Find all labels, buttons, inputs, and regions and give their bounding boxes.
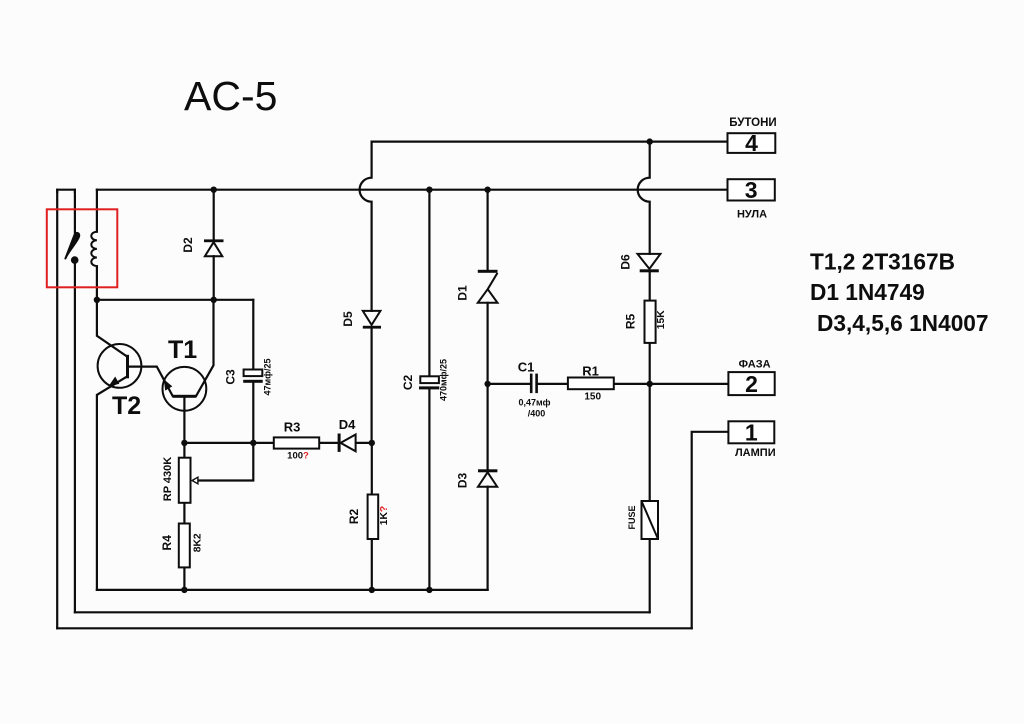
svg-text:0,47мф: 0,47мф [519,398,551,408]
wire R2 lower lead [371,539,373,590]
potentiometer RP [179,458,191,503]
svg-text:AC-5: AC-5 [184,73,277,119]
svg-text:R4: R4 [160,535,174,551]
wire bottom bus y=589.9 [97,589,488,591]
wire T2 collector lead [97,300,127,357]
svg-text:100?: 100? [287,451,309,462]
wire terminal1 lead [692,432,728,629]
wire D6 to R5 [649,272,651,300]
svg-text:ЛАМПИ: ЛАМПИ [735,447,776,459]
diode D3 [478,469,497,486]
wire T2 base to T1 emitter [129,367,173,396]
capacitor C2 [419,376,439,389]
svg-text:R5: R5 [624,314,638,330]
transistor T2 [98,344,142,388]
wire D1 upper lead [487,190,489,270]
diode D4 [338,434,356,452]
wire C2 lower lead [428,389,430,590]
terminal 1 [728,421,774,443]
diode D5 [363,311,381,329]
svg-text:D5: D5 [341,311,355,327]
wire fuse lower lead [649,539,651,612]
terminal 3 [728,179,775,200]
resistor R5 [645,301,656,343]
diode D6 [638,254,661,272]
svg-text:1K?: 1K? [379,506,390,525]
wire RP wiper feed [198,443,254,481]
wire C3 lower lead to R3 row [252,383,254,443]
wire D3 upper lead [487,384,489,469]
RP wiper arrow [192,477,198,484]
diode D2 [204,239,224,256]
wire T1 collector lead [196,300,213,396]
zener D1 [478,270,498,303]
svg-text:D4: D4 [339,417,356,432]
svg-text:470мф/25: 470мф/25 [439,359,449,401]
svg-text:R1: R1 [582,363,599,378]
wire coil upper lead x=96.9 [96,190,98,232]
svg-text:1: 1 [745,420,758,446]
svg-text:R3: R3 [284,420,301,435]
svg-text:T1: T1 [168,336,197,364]
svg-text:D1: D1 [456,285,470,301]
relay coil L [91,232,97,266]
wire R5 to C1 node to fuse [649,343,651,501]
svg-text:НУЛА: НУЛА [737,209,767,221]
svg-text:T1,2 2T3167B: T1,2 2T3167B [810,249,955,275]
svg-text:D6: D6 [619,254,633,270]
svg-text:C2: C2 [401,375,415,391]
wire C2 upper lead [428,190,430,377]
svg-text:/400: /400 [528,408,546,418]
wire R3 row y=442.9 [184,442,371,444]
svg-text:C3: C3 [224,369,238,385]
fuse FUSE [642,501,659,539]
wire D5 to R3 node [371,329,373,443]
wire RP to R4 chain x=184.5 [183,443,185,590]
resistor R3 [274,437,319,448]
svg-text:ФАЗА: ФАЗА [739,359,771,371]
wire D3 lower lead [487,487,489,590]
wire switch lower lead x=74.9 [74,264,76,613]
resistor R4 [179,524,190,568]
wire second bus y=189.7 from coil top to terminal 3 [97,189,728,191]
terminal 4 [728,133,776,153]
wire bottom bus y=612.3 [75,611,650,613]
svg-text:БУТОНИ: БУТОНИ [729,117,776,129]
wire D1 to C1 node [487,303,489,384]
relay switch contact dot [71,256,79,264]
wire R2 upper lead [371,443,373,495]
wire node row y=299.8 from coil line to C3 branch [97,299,253,301]
svg-text:D2: D2 [181,237,195,253]
terminal 2 [728,372,774,395]
wire C1 R1 row y=383.9 [488,383,728,385]
svg-text:C1: C1 [518,360,535,375]
svg-text:8K2: 8K2 [192,533,203,552]
svg-text:RP 430K: RP 430K [162,457,174,501]
svg-text:D3: D3 [456,473,470,489]
wire D2 lower lead [213,256,215,300]
relay red box [47,209,118,287]
wire D6 branch vertical with hump [638,142,650,254]
capacitor C1 [530,374,538,394]
resistor R2 [368,495,379,540]
wire bottom bus y=628.3 [57,627,692,629]
svg-text:47мф/25: 47мф/25 [263,359,273,396]
svg-text:D1 1N4749: D1 1N4749 [810,279,925,305]
svg-text:3: 3 [745,177,758,203]
svg-text:FUSE: FUSE [627,505,637,529]
svg-text:150: 150 [584,392,601,403]
wire T1 base lead down [183,398,185,443]
wire coil lower lead to node at y=299.8 [96,266,98,300]
wire top bus y=141.6 from D5 branch to terminal 4 [372,141,728,143]
wire D2 upper lead [213,190,215,240]
relay switch blade [65,233,79,259]
wire C3 upper lead from node row [252,300,254,370]
svg-text:4: 4 [745,130,758,156]
wire D5 branch vertical with hump over y=189.7 [360,142,372,311]
svg-text:T2: T2 [112,392,141,420]
wire switch upper lead x=74.9 [74,190,76,233]
resistor R1 [568,378,614,390]
wire T2 emitter lead down to bottom bus [97,377,127,590]
svg-text:15K: 15K [656,310,667,329]
wire left outer vertical x=57.2 [56,190,58,629]
svg-text:R2: R2 [347,509,361,525]
wire bridge between left verticals [57,190,75,192]
svg-text:D3,4,5,6 1N4007: D3,4,5,6 1N4007 [817,310,989,336]
transistor T1 [163,367,207,411]
capacitor C3 [243,370,263,383]
svg-text:2: 2 [745,371,758,397]
